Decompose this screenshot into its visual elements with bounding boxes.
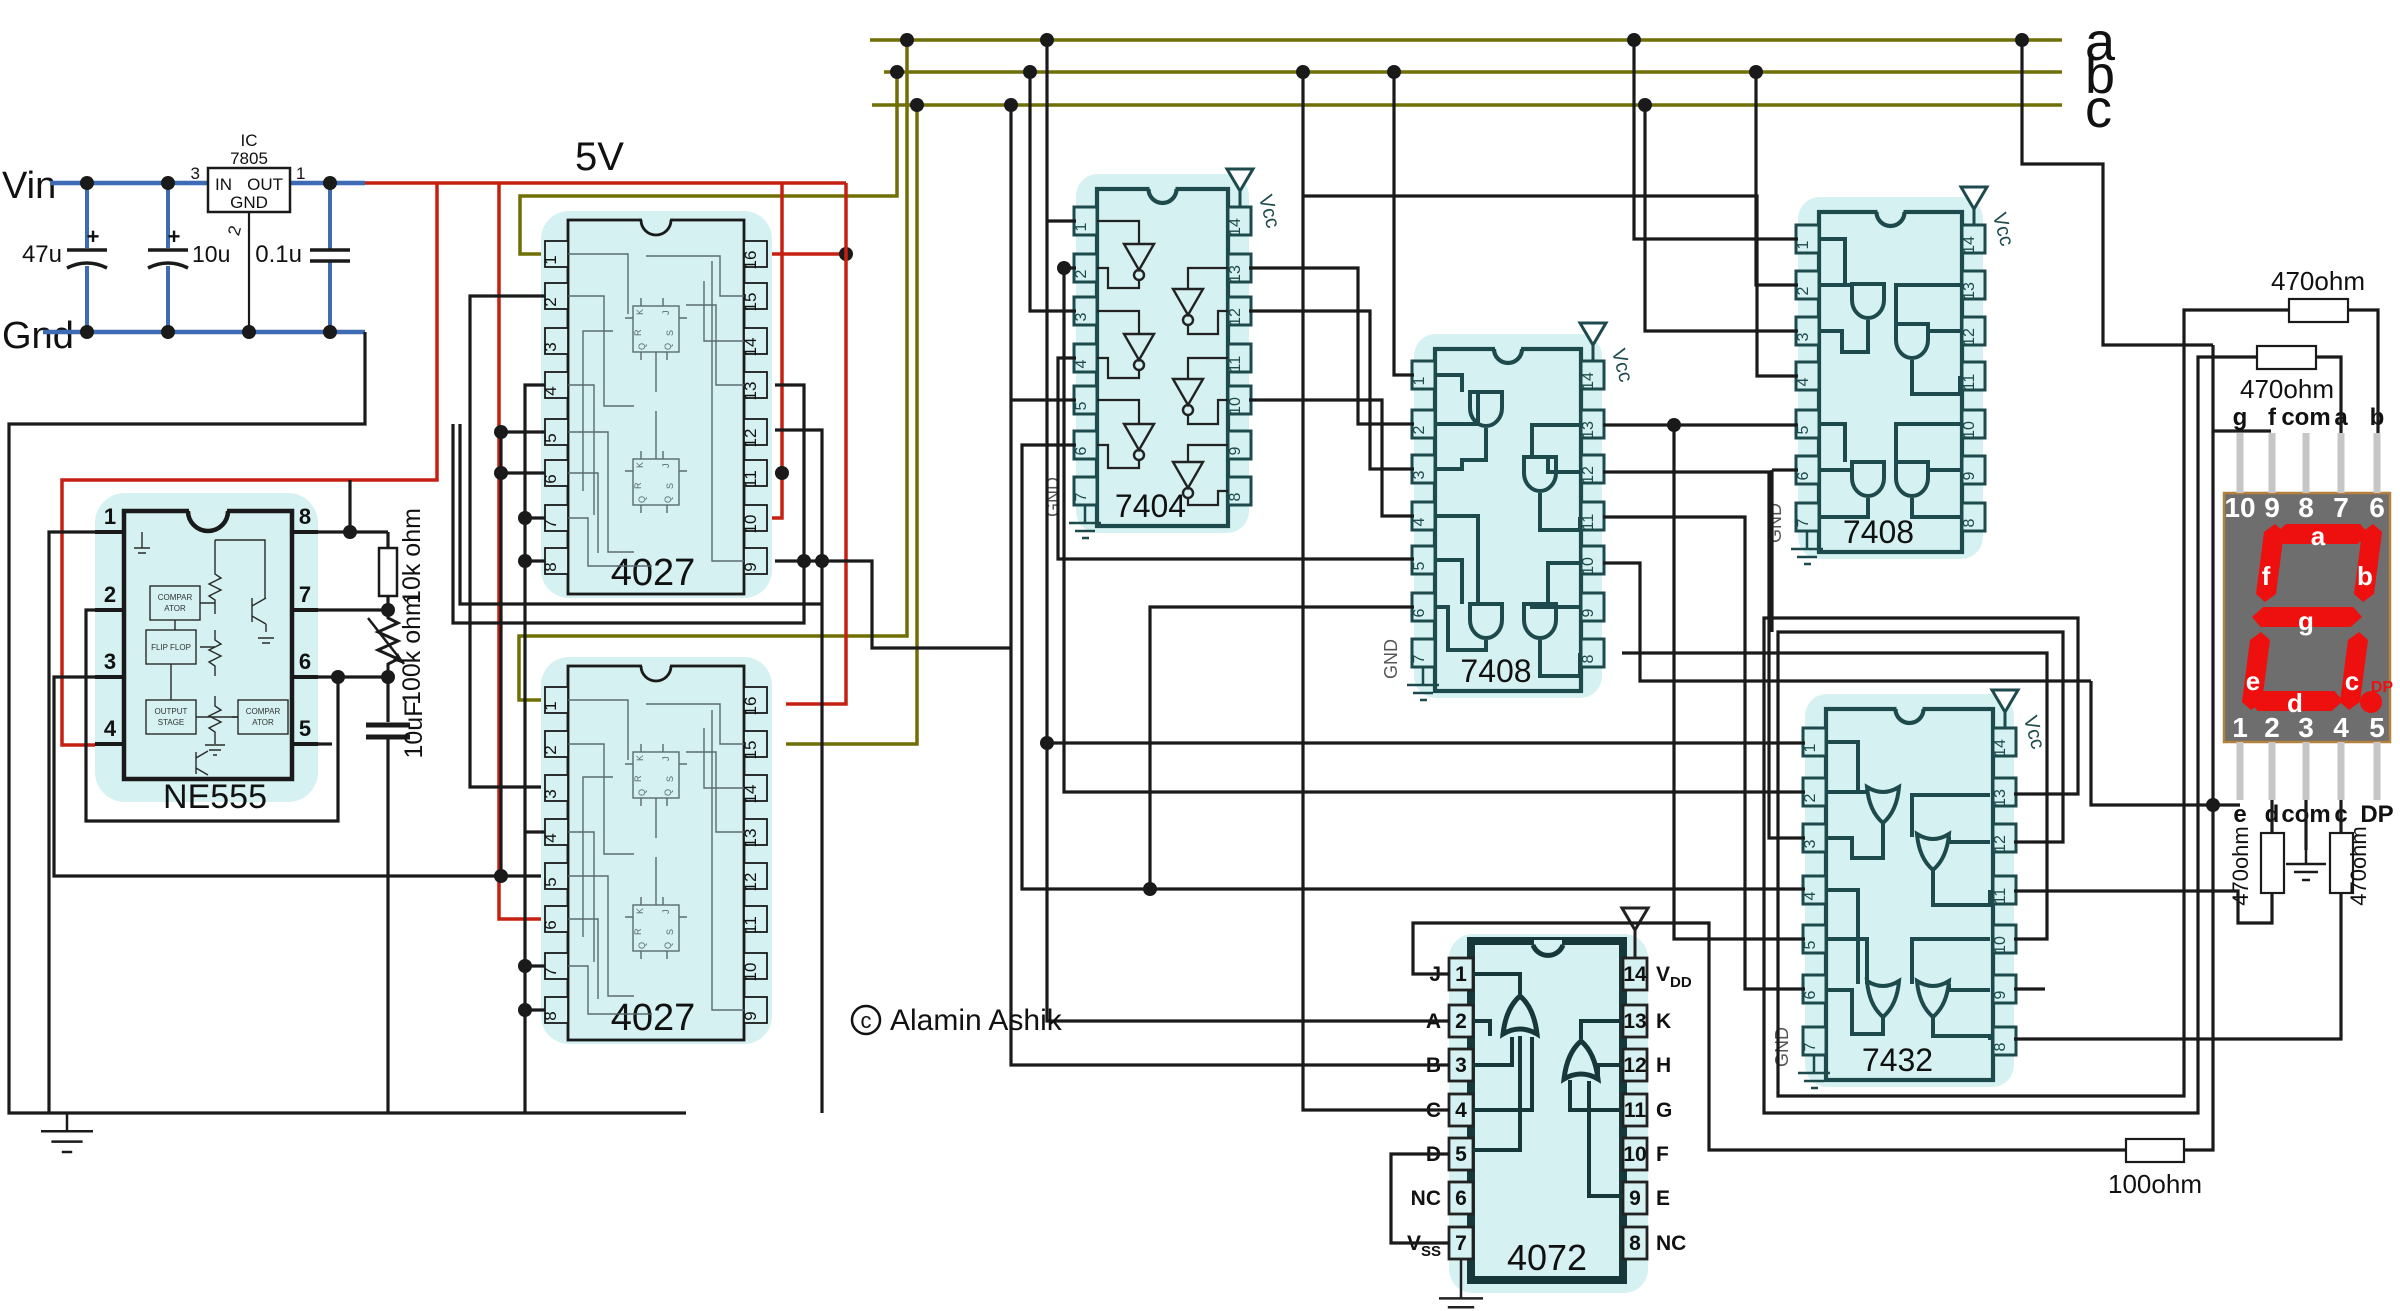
- U4 pin 2: [1074, 254, 1097, 282]
- wire 4072 J loop to 100ohm: [1413, 923, 2126, 1150]
- svg-text:5: 5: [299, 716, 311, 741]
- wire red 4027#1 pin16 to vertical: [767, 252, 846, 256]
- bus b: [884, 70, 2062, 74]
- bus c: [872, 103, 2062, 107]
- wire 7404 pin6 to 7432 pin4: [1022, 445, 1805, 889]
- IC U2 4027 highlight: [541, 211, 772, 598]
- svg-text:7: 7: [1411, 654, 1428, 663]
- U5 pin 8: [1581, 639, 1604, 667]
- svg-text:8: 8: [1580, 654, 1597, 663]
- U2 pin 1: [545, 241, 568, 267]
- svg-text:9: 9: [741, 1011, 760, 1020]
- wire to 7432 pin1: [1047, 741, 1805, 744]
- svg-text:11: 11: [1624, 1099, 1647, 1122]
- svg-text:K: K: [635, 462, 645, 468]
- svg-text:4: 4: [1802, 891, 1819, 900]
- 7408 mid AND gates: [1470, 392, 1502, 426]
- display segment DP: [2360, 691, 2382, 713]
- U3 pin 4: [545, 819, 568, 845]
- U2 pin 14: [744, 328, 767, 354]
- svg-text:5: 5: [1455, 1143, 1467, 1166]
- capacitor C4 10uF: [386, 677, 389, 722]
- NE555 pin 1: [95, 530, 124, 534]
- U2 pin 6: [545, 460, 568, 486]
- svg-text:+: +: [168, 224, 181, 249]
- svg-text:1: 1: [2232, 712, 2248, 743]
- NE555 pin 2: [95, 608, 124, 612]
- 4072 body: [1471, 941, 1623, 1280]
- U5 pin 2: [1412, 410, 1435, 438]
- svg-text:14: 14: [1961, 236, 1978, 254]
- wire 4072 D to VSS: [1391, 1154, 1449, 1243]
- U4 body: [1097, 189, 1228, 526]
- U5 pin 4: [1412, 502, 1435, 530]
- U6 pin 7: [1796, 503, 1819, 531]
- svg-text:10k ohm: 10k ohm: [398, 508, 426, 604]
- U4 pin 11: [1228, 344, 1251, 372]
- wire e tap: [2091, 681, 2240, 805]
- U5 pin 11: [1581, 502, 1604, 530]
- svg-text:1: 1: [296, 164, 305, 183]
- svg-text:5: 5: [541, 433, 560, 442]
- svg-text:R: R: [633, 775, 643, 782]
- svg-text:0.1u: 0.1u: [255, 241, 302, 268]
- svg-text:R: R: [633, 482, 643, 489]
- wire 4027#1 pin12 long vertical: [775, 430, 822, 1113]
- svg-text:5: 5: [541, 877, 560, 886]
- U3 pin 7: [545, 953, 568, 979]
- svg-text:c: c: [2345, 666, 2359, 696]
- svg-text:10: 10: [1227, 397, 1244, 415]
- svg-text:9: 9: [1961, 471, 1978, 480]
- svg-text:Q: Q: [637, 789, 647, 796]
- svg-text:4: 4: [1795, 377, 1812, 386]
- NE555 pin 8: [292, 530, 318, 534]
- op-amp U1 NE555 highlight: [95, 493, 318, 802]
- svg-text:b: b: [2357, 561, 2373, 591]
- svg-text:6: 6: [1411, 608, 1428, 617]
- wire display d to R5: [2270, 800, 2273, 833]
- svg-text:3: 3: [1411, 470, 1428, 479]
- wire 7404 pin10 to 7408mid pin4: [1249, 400, 1414, 516]
- svg-text:10: 10: [2224, 492, 2255, 523]
- U6 body: [1819, 212, 1962, 552]
- svg-text:6: 6: [541, 474, 560, 483]
- U6 pin 2: [1796, 271, 1819, 299]
- U6 pin 14: [1962, 225, 1985, 253]
- svg-text:OUTPUT: OUTPUT: [155, 707, 188, 716]
- svg-text:12: 12: [1623, 1054, 1646, 1077]
- 7408 right AND gates: [1852, 284, 1884, 318]
- U4 pin 5: [1074, 386, 1097, 414]
- wire 7404 pin12 to 7408mid pin3: [1249, 311, 1414, 469]
- svg-text:13: 13: [1227, 265, 1244, 283]
- svg-text:5: 5: [1802, 940, 1819, 949]
- U7 pin 11: [1993, 876, 2016, 904]
- svg-text:Q: Q: [637, 496, 647, 503]
- svg-text:470ohm: 470ohm: [2228, 826, 2253, 906]
- U3 pin 10: [744, 953, 767, 979]
- U5 pin 6: [1412, 593, 1435, 621]
- wire NE555 pin5 stub: [318, 742, 332, 745]
- display segment a: [2273, 524, 2370, 544]
- svg-text:G: G: [1656, 1099, 1672, 1122]
- wire 7408r pin4 to 7432 pin13: [1303, 196, 1798, 376]
- svg-text:7404: 7404: [1115, 488, 1186, 524]
- U2 internal: [568, 254, 744, 566]
- 4072 pin 8: [1623, 1227, 1647, 1259]
- U5 body: [1435, 349, 1581, 691]
- svg-text:8: 8: [299, 504, 311, 529]
- svg-text:5: 5: [1411, 561, 1428, 570]
- svg-text:13: 13: [1961, 282, 1978, 300]
- wire R3 to display b: [2348, 310, 2378, 433]
- svg-text:FLIP FLOP: FLIP FLOP: [151, 643, 191, 652]
- wire red drop to NE555 area: [62, 183, 437, 745]
- U6 pin 10: [1962, 410, 1985, 438]
- U7 pin 12: [1993, 824, 2016, 852]
- U2 pin 11: [744, 460, 767, 486]
- junction dots power: [80, 176, 94, 190]
- U5 pin 14: [1581, 361, 1604, 389]
- svg-text:2: 2: [104, 582, 116, 607]
- svg-text:5: 5: [1073, 401, 1090, 410]
- U7 pin 9: [1993, 975, 2016, 1003]
- U7 pin 4: [1803, 876, 1826, 904]
- 4072 pin 13: [1623, 1005, 1647, 1037]
- svg-text:Q: Q: [663, 942, 673, 949]
- U3 pin 8: [545, 997, 568, 1023]
- 4072 pin 12: [1623, 1049, 1647, 1081]
- svg-text:+: +: [87, 224, 100, 249]
- U2 pin 7: [545, 505, 568, 531]
- svg-text:4072: 4072: [1507, 1237, 1587, 1278]
- svg-text:4: 4: [2333, 712, 2349, 743]
- wire display c to R6: [2339, 800, 2342, 833]
- U3 pin 9: [744, 997, 767, 1023]
- U3 pin 13: [744, 819, 767, 845]
- NE555 pin 6: [292, 675, 318, 679]
- U7 pin 13: [1993, 778, 2016, 806]
- U4 pin 6: [1074, 431, 1097, 459]
- U7 pin 6: [1803, 975, 1826, 1003]
- wire bus a to display g/f: [2022, 40, 2213, 345]
- 4072 VDD symbol: [1622, 908, 1648, 930]
- svg-text:470ohm: 470ohm: [2271, 266, 2365, 296]
- IC U3 4027 highlight: [541, 657, 772, 1044]
- svg-text:R: R: [633, 928, 643, 935]
- svg-text:10: 10: [1623, 1143, 1646, 1166]
- U2 pin 13: [744, 372, 767, 398]
- wire bus c to 7404 pin5 / 4072 B: [1011, 105, 1449, 1065]
- IC U7 7432 highlight: [1805, 694, 2014, 1087]
- U5 pin 1: [1412, 361, 1435, 389]
- wire 7404 pin4 to 7408mid pin5: [1058, 358, 1414, 559]
- svg-text:5: 5: [2369, 712, 2385, 743]
- regulator IC 7805: [208, 168, 290, 212]
- svg-text:NC: NC: [1656, 1232, 1686, 1255]
- 4072 ground symbol: [1460, 1259, 1463, 1283]
- svg-text:5: 5: [1795, 425, 1812, 434]
- U4 pin 1: [1074, 207, 1097, 235]
- wire bus c to 4027#2 pin15: [786, 105, 917, 744]
- wire NE555 pin1 to gnd: [49, 532, 95, 1113]
- 4072 pin 11: [1623, 1094, 1647, 1126]
- svg-text:11: 11: [741, 916, 760, 934]
- display segment f: [2255, 524, 2285, 602]
- svg-text:1: 1: [541, 255, 560, 264]
- svg-text:S: S: [665, 483, 675, 489]
- U4 pin 13: [1228, 254, 1251, 282]
- wire 4027#2 pins 4,7,8 to chain: [525, 830, 545, 833]
- U2 pin 2: [545, 283, 568, 309]
- svg-text:2: 2: [1802, 793, 1819, 802]
- NE555 pin 3: [95, 675, 124, 679]
- IC U4 7404 highlight: [1076, 174, 1249, 533]
- wire red drop to 4027#2 pin6: [499, 183, 545, 919]
- svg-text:2: 2: [1455, 1010, 1467, 1033]
- svg-text:14: 14: [1623, 963, 1647, 986]
- capacitor C3 0.1u: [328, 183, 332, 249]
- svg-text:e: e: [2246, 666, 2260, 696]
- 4072 pin 1: [1449, 958, 1473, 990]
- svg-text:g: g: [2298, 606, 2314, 636]
- 4072 pin 14: [1623, 958, 1647, 990]
- wire R4 to display a: [2316, 357, 2341, 433]
- wire 7408r pin6 joins loop: [1772, 468, 1798, 471]
- svg-text:Q: Q: [663, 789, 673, 796]
- U2 pin 5: [545, 419, 568, 445]
- U7 pin 7: [1803, 1027, 1826, 1055]
- svg-text:7: 7: [1802, 1042, 1819, 1051]
- svg-text:S: S: [665, 330, 675, 336]
- svg-text:4: 4: [104, 716, 117, 741]
- svg-text:100ohm: 100ohm: [2108, 1169, 2202, 1199]
- svg-text:GND: GND: [1381, 639, 1401, 679]
- svg-text:7408: 7408: [1460, 653, 1531, 689]
- U4 pin 9: [1228, 431, 1251, 459]
- U5 pin 5: [1412, 546, 1435, 574]
- svg-text:K: K: [635, 309, 645, 315]
- wire NE555 pin2-pin6 tie: [86, 610, 338, 821]
- 7404 inverters: [1124, 244, 1154, 270]
- U5 pin 3: [1412, 455, 1435, 483]
- svg-text:3: 3: [191, 164, 200, 183]
- svg-text:8: 8: [541, 1011, 560, 1020]
- bus a: [870, 38, 2062, 42]
- U3 pin 15: [744, 731, 767, 757]
- svg-text:1: 1: [1411, 376, 1428, 385]
- U5 Vcc symbol: [1580, 323, 1606, 345]
- ground symbol main: [66, 1113, 69, 1131]
- svg-text:K: K: [1656, 1010, 1671, 1033]
- U5 pin 9: [1581, 593, 1604, 621]
- svg-text:COMPAR: COMPAR: [158, 593, 193, 602]
- svg-text:8: 8: [1992, 1042, 2009, 1051]
- svg-text:14: 14: [1580, 372, 1597, 390]
- svg-text:GND: GND: [230, 193, 268, 212]
- display segment b: [2353, 524, 2383, 602]
- svg-text:9: 9: [1580, 608, 1597, 617]
- svg-text:7: 7: [541, 519, 560, 528]
- U4 pin 10: [1228, 386, 1251, 414]
- wire 5V rail (red): [365, 181, 846, 185]
- 4072 pin 5: [1449, 1138, 1473, 1170]
- svg-text:a: a: [2311, 521, 2326, 551]
- U5 pin 13: [1581, 410, 1604, 438]
- svg-text:4: 4: [1455, 1099, 1467, 1122]
- U6 pin 12: [1962, 317, 1985, 345]
- capacitor C1 47u: [85, 183, 89, 248]
- svg-text:1: 1: [541, 701, 560, 710]
- wire 7408mid pin12 to 7432 pin3: [1603, 472, 1805, 838]
- wire gnd frame: [9, 332, 686, 1113]
- svg-text:J: J: [661, 464, 671, 469]
- svg-text:4027: 4027: [611, 997, 696, 1039]
- wire 7408mid pin11 to 7432 pin6: [1603, 517, 1805, 989]
- svg-text:3: 3: [1795, 332, 1812, 341]
- svg-text:g: g: [2233, 404, 2248, 431]
- U7 pin 5: [1803, 925, 1826, 953]
- wire 4027#1 pin14 area: [460, 424, 822, 604]
- svg-text:6: 6: [299, 649, 311, 674]
- svg-text:16: 16: [741, 251, 760, 270]
- U7 pin 8: [1993, 1027, 2016, 1055]
- svg-text:9: 9: [1629, 1187, 1641, 1210]
- U6 pin 5: [1796, 410, 1819, 438]
- 4072 pin 10: [1623, 1138, 1647, 1170]
- svg-text:9: 9: [1227, 446, 1244, 455]
- svg-text:DP: DP: [2360, 801, 2393, 828]
- U2 pin 9: [744, 548, 767, 574]
- U3 pin 14: [744, 775, 767, 801]
- svg-text:12: 12: [1580, 466, 1597, 484]
- svg-text:ATOR: ATOR: [252, 718, 274, 727]
- wire 7408mid pin13 to 7408r pin5: [1603, 423, 1798, 426]
- svg-text:Alamin Ashik: Alamin Ashik: [890, 1004, 1063, 1037]
- wire bus a to 7408r pin1: [1634, 40, 1798, 239]
- wire 7432 pin12 loop to 470ohm #1: [1778, 310, 2289, 1096]
- display LED1 body: [2224, 493, 2390, 742]
- svg-text:7: 7: [299, 582, 311, 607]
- wire bus a to 7404 pin1 / 7432 pin1 / 4072 A: [1047, 40, 1449, 1021]
- U3 pin 12: [744, 863, 767, 889]
- U7 pin 10: [1993, 925, 2016, 953]
- svg-text:2: 2: [1073, 269, 1090, 278]
- U3 body: [568, 666, 744, 1040]
- resistor R1 10k ohm: [386, 532, 389, 548]
- svg-text:ATOR: ATOR: [164, 604, 186, 613]
- U6 pin 3: [1796, 317, 1819, 345]
- svg-text:IC: IC: [241, 131, 258, 150]
- wire NE555 pin6: [318, 675, 388, 678]
- svg-text:7: 7: [2333, 492, 2349, 523]
- svg-text:14: 14: [1992, 739, 2009, 757]
- svg-text:3: 3: [1802, 839, 1819, 848]
- svg-text:2: 2: [541, 745, 560, 754]
- svg-text:7: 7: [1073, 492, 1090, 501]
- svg-text:7432: 7432: [1862, 1042, 1933, 1078]
- svg-text:8: 8: [1961, 518, 1978, 527]
- svg-text:3: 3: [1073, 312, 1090, 321]
- wire 7404 pin2 to 7432 pin2: [1064, 268, 1805, 792]
- svg-text:1: 1: [1795, 240, 1812, 249]
- svg-text:8: 8: [1227, 492, 1244, 501]
- 4072 pin 3: [1449, 1049, 1473, 1081]
- NE555 internal diagram: [134, 532, 288, 775]
- svg-text:6: 6: [1795, 471, 1812, 480]
- svg-text:7408: 7408: [1843, 514, 1914, 550]
- U7 pin 2: [1803, 778, 1826, 806]
- svg-text:Q: Q: [637, 343, 647, 350]
- svg-text:J: J: [661, 311, 671, 316]
- svg-text:11: 11: [1580, 514, 1597, 531]
- display segment e: [2241, 632, 2271, 710]
- 4072 pin 7: [1449, 1227, 1473, 1259]
- wire Vin rail (blue): [50, 181, 208, 186]
- svg-text:f: f: [2262, 561, 2271, 591]
- svg-text:DP: DP: [2371, 679, 2394, 696]
- svg-text:6: 6: [2369, 492, 2385, 523]
- svg-text:Q: Q: [637, 942, 647, 949]
- svg-text:NE555: NE555: [163, 778, 267, 816]
- wire junction down to 7432 pin5: [1674, 425, 1805, 939]
- NE555 pin 7: [292, 608, 318, 612]
- U2 pin 4: [545, 372, 568, 398]
- wire f drive vertical: [2184, 345, 2213, 1150]
- U2 pin 16: [744, 241, 767, 267]
- U5 pin 10: [1581, 546, 1604, 574]
- svg-text:7: 7: [1795, 518, 1812, 527]
- U4 pin 3: [1074, 297, 1097, 325]
- U4 pin 7: [1074, 477, 1097, 505]
- wire bus c to 7408r pin3: [1645, 105, 1798, 331]
- U7 body: [1826, 709, 1993, 1080]
- svg-text:K: K: [635, 908, 645, 914]
- svg-text:1: 1: [104, 504, 116, 529]
- U3 pin 2: [545, 731, 568, 757]
- U3 internal: [568, 700, 744, 1014]
- svg-text:8: 8: [1629, 1232, 1641, 1255]
- svg-text:2: 2: [1795, 286, 1812, 295]
- svg-text:12: 12: [1992, 835, 2009, 853]
- svg-text:6: 6: [1802, 990, 1819, 999]
- svg-text:4027: 4027: [611, 552, 696, 594]
- svg-text:c: c: [861, 1008, 872, 1033]
- U4 pin 14: [1228, 207, 1251, 235]
- svg-text:11: 11: [1992, 888, 2009, 905]
- wire bus b to 7408r pin2: [1756, 72, 1798, 285]
- svg-text:10uF: 10uF: [400, 702, 428, 759]
- NE555 pin 5: [292, 742, 318, 746]
- svg-text:H: H: [1656, 1054, 1671, 1077]
- wire 7432 pin13 loop to 470ohm #2: [1764, 357, 2257, 1113]
- U6 pin 9: [1962, 456, 1985, 484]
- wire NE555 pin7: [318, 608, 388, 611]
- U5 pin 12: [1581, 455, 1604, 483]
- U2 pin 12: [744, 419, 767, 445]
- svg-text:9: 9: [1992, 990, 2009, 999]
- IC U5 7408 highlight: [1414, 334, 1602, 698]
- svg-text:NC: NC: [1411, 1187, 1441, 1210]
- wire 4027#1 pin9: [775, 561, 1011, 648]
- svg-text:1: 1: [1455, 963, 1467, 986]
- svg-text:F: F: [1656, 1143, 1669, 1166]
- U6 pin 11: [1962, 362, 1985, 390]
- copyright note: [852, 1006, 880, 1034]
- U3 pin 16: [744, 687, 767, 713]
- U6 pin 4: [1796, 362, 1819, 390]
